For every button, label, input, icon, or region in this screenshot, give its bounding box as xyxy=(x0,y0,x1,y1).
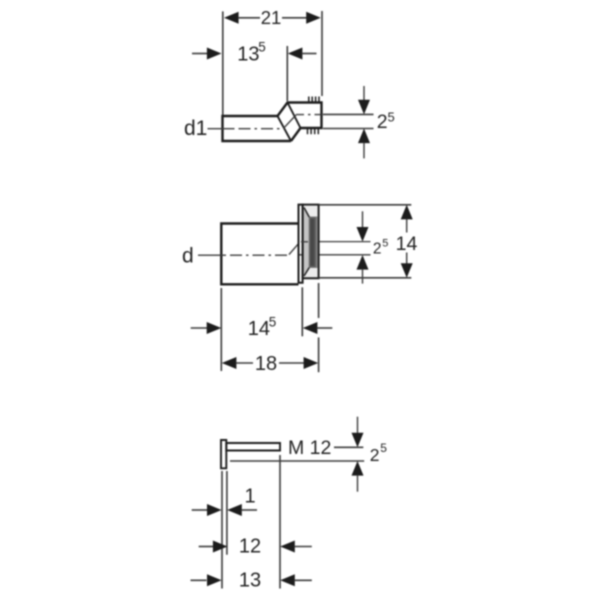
svg-text:13: 13 xyxy=(237,43,259,65)
svg-text:d: d xyxy=(182,244,194,267)
svg-text:5: 5 xyxy=(388,110,395,125)
svg-text:21: 21 xyxy=(261,7,282,28)
svg-text:5: 5 xyxy=(258,40,266,55)
svg-text:2: 2 xyxy=(370,445,380,465)
svg-text:2: 2 xyxy=(373,240,382,257)
svg-text:18: 18 xyxy=(255,353,277,375)
svg-text:2: 2 xyxy=(377,111,388,133)
svg-text:1: 1 xyxy=(244,485,255,507)
svg-text:5: 5 xyxy=(269,315,277,330)
svg-text:M 12: M 12 xyxy=(288,437,331,459)
svg-text:14: 14 xyxy=(248,318,270,340)
svg-text:5: 5 xyxy=(382,238,388,250)
svg-text:5: 5 xyxy=(380,441,387,455)
svg-text:d1: d1 xyxy=(184,117,207,140)
svg-text:12: 12 xyxy=(239,536,261,558)
svg-text:14: 14 xyxy=(396,233,418,255)
svg-text:13: 13 xyxy=(239,569,261,591)
